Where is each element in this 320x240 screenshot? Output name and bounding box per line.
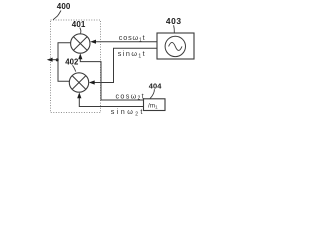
wire: cos w1 t from 403 to mixer 401 right port <box>95 41 158 43</box>
divider box 404 <box>144 99 166 111</box>
svg-text:400: 400 <box>57 2 71 11</box>
mixer 402 <box>69 73 88 92</box>
leader for 404 <box>150 89 154 98</box>
mixer 401 <box>71 34 90 53</box>
node junction dot <box>56 58 59 61</box>
oscillator sine wave <box>169 42 182 50</box>
leader for 400 <box>53 11 61 20</box>
wire: mixer 401 left port to bus <box>58 43 71 60</box>
svg-text:sinω1t: sinω1t <box>118 49 146 59</box>
wire: bus down to mixer 402 left port <box>58 60 70 82</box>
wire: cos w2 t from 404 up to mixer 401 bottom port <box>80 58 143 101</box>
wire: sin w1 t from 403 down to mixer 402 right port <box>93 48 157 82</box>
wire: sin w2 t from 404 up to mixer 402 bottom port <box>79 97 143 107</box>
svg-text:401: 401 <box>72 20 86 29</box>
leader for 401 <box>80 28 81 34</box>
wire: output to left with arrowhead <box>51 59 58 61</box>
oscillator U403 box <box>157 33 194 59</box>
svg-text:402: 402 <box>65 57 79 66</box>
dashed block 400 <box>51 20 101 113</box>
svg-text:404: 404 <box>149 81 162 90</box>
oscillator circle <box>165 36 185 56</box>
leader for 402 <box>73 65 76 71</box>
svg-text:sinω2t: sinω2t <box>111 107 145 117</box>
leader for 403 <box>173 25 176 32</box>
svg-text:403: 403 <box>166 16 182 26</box>
